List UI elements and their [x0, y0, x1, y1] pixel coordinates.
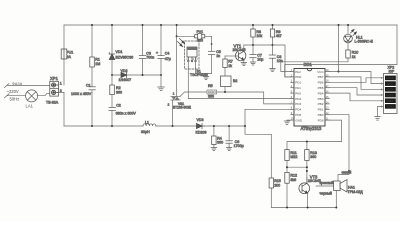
- svg-text:200: 200: [274, 184, 280, 188]
- wire triac drop: [173, 25, 177, 126]
- resistor R1: [91, 25, 93, 87]
- wire MISO: [329, 78, 383, 83]
- svg-text:360: 360: [217, 141, 223, 145]
- capacitor C2: [109, 107, 116, 110]
- svg-text:красный: красный: [320, 181, 334, 185]
- wire tsop out: [188, 62, 290, 99]
- wire mid rail ground: [160, 75, 162, 87]
- svg-text:VD3: VD3: [197, 118, 204, 122]
- svg-text:+: +: [156, 51, 158, 55]
- svg-text:M22: M22: [290, 155, 297, 159]
- svg-text:PA2: PA2: [295, 70, 301, 74]
- svg-text:R2: R2: [116, 86, 121, 90]
- svg-text:ISP: ISP: [389, 70, 395, 74]
- capacitor C1: [89, 87, 96, 90]
- wire SCK: [329, 77, 383, 89]
- svg-text:B2: B2: [233, 79, 237, 83]
- svg-text:XP1: XP1: [50, 76, 59, 81]
- capacitor C4: [160, 25, 162, 75]
- lamp LA1: [26, 90, 38, 102]
- resistor R2: [111, 75, 113, 107]
- svg-text:SCK: SCK: [387, 88, 394, 92]
- fuse FU1: [61, 49, 67, 59]
- resistor R12: [286, 160, 288, 207]
- svg-text:1: 1: [60, 81, 62, 85]
- box S1: [221, 76, 232, 87]
- ground: [158, 87, 165, 91]
- resistor R6: [207, 90, 217, 94]
- svg-text:VD1: VD1: [116, 50, 123, 54]
- resistor R13: [305, 150, 309, 161]
- wire HA1 blue lead: [338, 171, 349, 181]
- svg-text:PB1: PB1: [318, 108, 324, 112]
- svg-text:C1: C1: [86, 83, 91, 87]
- svg-text:синий: синий: [342, 171, 352, 175]
- MCU DD1 pin stubs right: [325, 72, 329, 121]
- LED HL1: [347, 25, 349, 50]
- svg-text:черный: черный: [320, 192, 332, 196]
- wire R11 R13 top: [287, 142, 342, 150]
- svg-text:VCC: VCC: [387, 82, 394, 86]
- svg-text:VCC: VCC: [317, 70, 324, 74]
- wire S1 to gate wire: [224, 87, 226, 93]
- svg-text:680n x 600V: 680n x 600V: [116, 112, 137, 116]
- ground: [250, 62, 256, 65]
- svg-text:C2: C2: [116, 104, 121, 108]
- svg-text:700n: 700n: [146, 56, 154, 60]
- svg-text:KD209: KD209: [196, 131, 207, 135]
- svg-text:PB5: PB5: [318, 86, 324, 90]
- svg-text:GND: GND: [295, 118, 303, 122]
- svg-text:PB2: PB2: [318, 102, 324, 106]
- ground: [241, 63, 247, 66]
- wire XP1 pin2 to bottom rail: [59, 92, 65, 126]
- zener VD1: [111, 25, 113, 75]
- svg-text:1000 x 450V: 1000 x 450V: [71, 92, 92, 96]
- wire reset rail: [244, 45, 291, 77]
- ground: [203, 74, 209, 80]
- ground: [226, 148, 232, 151]
- transistor VT1: [236, 50, 246, 60]
- svg-text:PB3: PB3: [318, 97, 324, 101]
- svg-text:360: 360: [116, 90, 122, 94]
- spark gap FV1: [177, 36, 212, 51]
- svg-text:PD6: PD6: [318, 118, 324, 122]
- wire VT3 emitter: [307, 193, 309, 207]
- svg-text:ФАЗА: ФАЗА: [12, 82, 23, 86]
- svg-text:PD1: PD1: [295, 81, 301, 85]
- wire MOSI: [329, 88, 383, 95]
- svg-text:FU1: FU1: [67, 51, 74, 55]
- svg-text:360: 360: [208, 94, 214, 98]
- svg-text:PA0: PA0: [295, 91, 301, 95]
- svg-text:VD2: VD2: [121, 69, 128, 73]
- svg-text:1k: 1k: [228, 64, 232, 68]
- svg-text:360: 360: [197, 38, 203, 42]
- svg-text:10k: 10k: [256, 34, 262, 38]
- resistor R10: [346, 50, 350, 58]
- IR receiver B1 dashed box: [185, 41, 200, 69]
- svg-text:BT136-600E: BT136-600E: [173, 105, 191, 109]
- svg-text:RST: RST: [387, 99, 393, 103]
- transistor VT3: [306, 160, 308, 177]
- svg-text:PA1: PA1: [295, 86, 301, 90]
- svg-text:1700µ: 1700µ: [234, 144, 244, 148]
- ground: [270, 69, 276, 72]
- wire mid rail: [112, 74, 161, 76]
- svg-text:PD5: PD5: [295, 113, 301, 117]
- svg-text:PB4: PB4: [318, 91, 324, 95]
- resistor R9: [272, 25, 274, 45]
- resistor R7: [224, 56, 226, 76]
- capacitor C3: [142, 25, 144, 75]
- MCU DD1 pin stubs left: [291, 72, 294, 115]
- wire PD4 to audio: [245, 109, 291, 126]
- wire VT1 emitter: [243, 60, 245, 63]
- svg-text:10n: 10n: [277, 59, 283, 63]
- resistor R4: [213, 126, 215, 148]
- svg-text:360: 360: [310, 155, 316, 159]
- svg-text:R5: R5: [208, 84, 213, 88]
- wire VT1 base: [225, 55, 239, 57]
- svg-text:R15: R15: [274, 179, 281, 183]
- wire RST: [329, 93, 383, 101]
- svg-text:PB7: PB7: [318, 75, 324, 79]
- svg-text:47µ: 47µ: [165, 57, 171, 61]
- wire DD1 gnd: [287, 119, 294, 122]
- capacitor C8: [272, 45, 274, 69]
- svg-text:ATtiny2313: ATtiny2313: [301, 126, 323, 131]
- resistor R15: [269, 178, 273, 188]
- svg-text:30µH: 30µH: [141, 130, 150, 134]
- svg-text:PD2: PD2: [295, 97, 301, 101]
- wire HA1 red lead: [316, 185, 334, 187]
- svg-text:L1: L1: [145, 120, 149, 124]
- svg-text:ТРМ-02Д: ТРМ-02Д: [348, 190, 364, 194]
- wire fuse drop: [63, 25, 65, 85]
- node input labels: [7, 82, 34, 109]
- capacitor C7: [252, 45, 254, 62]
- wire LED return to DD1 pin1: [281, 58, 348, 72]
- wire tsop gnd: [196, 62, 212, 74]
- svg-text:MISO: MISO: [386, 76, 395, 80]
- svg-text:PD3: PD3: [295, 102, 301, 106]
- svg-text:GND: GND: [387, 105, 395, 109]
- svg-text:C4: C4: [165, 51, 170, 55]
- svg-text:PD4: PD4: [295, 108, 301, 112]
- wire top +U rail: [64, 24, 397, 26]
- node IR arrows: [178, 39, 185, 47]
- wire base link: [287, 166, 307, 168]
- resistor R8: [252, 25, 254, 45]
- MCU DD1 pin numbers: [291, 69, 329, 121]
- svg-text:MOSI: MOSI: [386, 93, 394, 97]
- connector XP1: [50, 81, 59, 96]
- ground: [211, 148, 217, 151]
- node phase input wire: [7, 84, 50, 86]
- ground: [284, 121, 290, 125]
- wire VCC to XP2: [339, 72, 384, 84]
- svg-text:1k: 1k: [352, 55, 356, 59]
- wire PB0 down to sounder: [329, 115, 349, 171]
- wire XP2 gnd: [378, 106, 384, 116]
- node neutral input wire: [7, 95, 26, 97]
- svg-text:10µ: 10µ: [257, 58, 263, 62]
- wire VT1 collector: [243, 45, 245, 51]
- wire lamp to XP1: [37, 93, 50, 95]
- svg-text:PB6: PB6: [318, 81, 324, 85]
- wire top rail right end to DD1 row2: [285, 25, 397, 77]
- svg-text:1n: 1n: [216, 54, 220, 58]
- svg-text:2A: 2A: [67, 55, 72, 59]
- svg-text:PB0: PB0: [318, 113, 324, 117]
- wire bottom rail: [64, 126, 271, 134]
- ground: [375, 117, 381, 121]
- resistor R11: [285, 150, 289, 161]
- diode VD2: [121, 72, 127, 77]
- MCU DD1: [294, 69, 325, 127]
- inductor L1: [143, 124, 156, 126]
- svg-text:HA1: HA1: [348, 185, 355, 189]
- svg-text:3k6: 3k6: [290, 178, 296, 182]
- svg-text:LA1: LA1: [26, 104, 34, 109]
- svg-text:L-53SRC-E: L-53SRC-E: [355, 40, 374, 44]
- sounder HA1: [334, 180, 347, 192]
- wire PD6 down: [329, 120, 341, 141]
- capacitor C6: [228, 126, 230, 148]
- IR receiver B1 body: [187, 47, 197, 62]
- svg-text:50Hz: 50Hz: [10, 97, 20, 102]
- wire common bottom right: [271, 134, 336, 207]
- svg-text:FV1: FV1: [197, 30, 204, 34]
- wire HA1 black lead: [335, 191, 337, 208]
- svg-text:TSOP4836: TSOP4836: [190, 73, 208, 77]
- MCU DD1 pin names: [295, 70, 324, 123]
- wire gate: [180, 92, 291, 104]
- svg-text:1N4007: 1N4007: [119, 78, 132, 82]
- capacitor C5: [208, 51, 215, 54]
- svg-text:ТВ-32А: ТВ-32А: [46, 100, 59, 104]
- triac VS1: [171, 97, 181, 101]
- svg-text:PD0: PD0: [295, 75, 301, 79]
- svg-text:4k7: 4k7: [276, 34, 282, 38]
- wire VCC drop to DD1: [329, 25, 338, 72]
- diode VD3: [197, 123, 205, 128]
- svg-text:BZV85C36: BZV85C36: [116, 56, 134, 60]
- svg-text:1M: 1M: [95, 62, 100, 66]
- svg-text:~220V: ~220V: [7, 89, 19, 94]
